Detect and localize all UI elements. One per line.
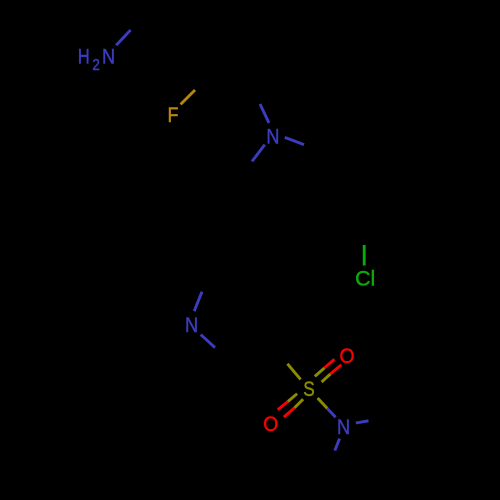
- double bond S=O1 line 2 red half: [330, 365, 341, 374]
- bond F-C gold half: [181, 90, 195, 104]
- bond Cl-C green half: [363, 245, 366, 266]
- svg-text:O: O: [340, 345, 355, 368]
- svg-text:H: H: [78, 45, 90, 68]
- bond N3-CH3 (down-left) blue half: [335, 439, 340, 451]
- bond S-N3 blue half: [327, 408, 335, 417]
- svg-text:Cl: Cl: [355, 267, 375, 290]
- double bond S=O1 line 2 olive half: [322, 374, 331, 382]
- bond N3-CH3 (right) blue half: [356, 421, 369, 423]
- double bond S=O2 line 1 olive half: [288, 394, 297, 402]
- double bond S=O2 line 1 red half: [278, 402, 288, 410]
- svg-text:N: N: [102, 45, 115, 68]
- svg-text:N: N: [185, 314, 198, 337]
- svg-text:N: N: [337, 416, 350, 439]
- bond N1-C (down-left) blue half: [252, 145, 265, 162]
- svg-text:2: 2: [92, 57, 100, 74]
- svg-text:N: N: [266, 125, 279, 148]
- bond N(amine)-CH2 blue half: [116, 30, 130, 45]
- double bond S=O2 line 2 red half: [284, 408, 295, 417]
- bond N1-CH2 (up-left) blue half: [260, 104, 269, 123]
- bond N2-C (down-right) blue half: [201, 335, 215, 348]
- double bond S=O1 line 1 red half: [324, 359, 334, 368]
- svg-text:F: F: [168, 104, 179, 127]
- bond S-CH3 olive half: [287, 364, 300, 380]
- amine group H2N label: [78, 45, 115, 74]
- svg-text:O: O: [263, 413, 278, 436]
- bond N2-C (up) blue half: [194, 292, 202, 312]
- double bond S=O1 line 1 olive half: [315, 368, 325, 376]
- bond S-N3 olive half: [318, 398, 328, 408]
- bond N1-C (right) blue half: [285, 137, 304, 144]
- double bond S=O2 line 2 olive half: [294, 399, 303, 408]
- svg-text:S: S: [303, 378, 315, 401]
